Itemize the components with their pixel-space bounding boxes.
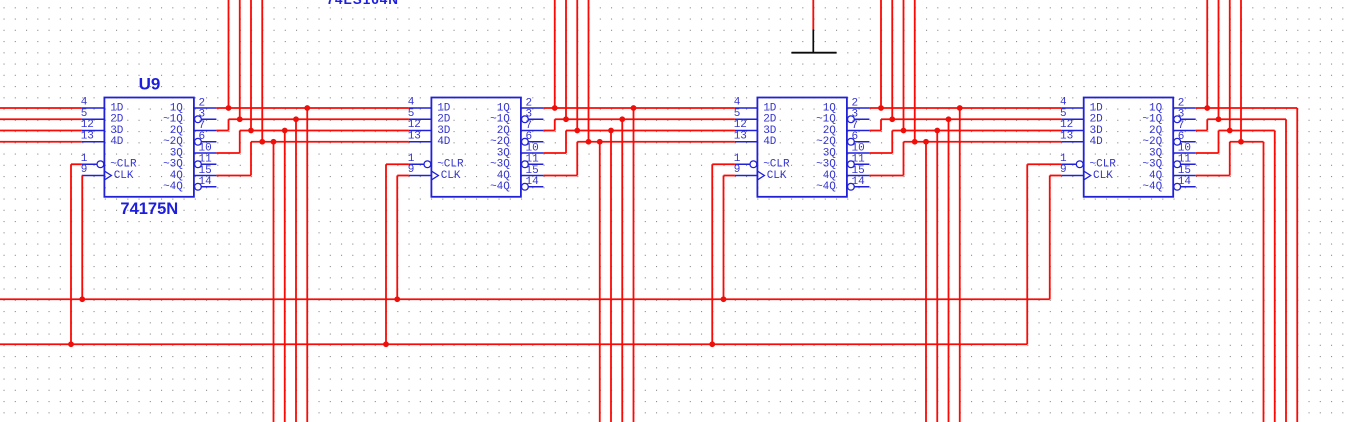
U12 pin 7 (2Q) stub (1173, 130, 1196, 132)
wire net U12 2Q jog up (1206, 119, 1208, 130)
svg-text:1Q: 1Q (823, 102, 837, 114)
U10 pin 10 (3Q) stub (521, 152, 544, 154)
junction U11 CLK on CLK bus (721, 296, 727, 302)
svg-text:15: 15 (1178, 165, 1191, 177)
svg-text:2Q: 2Q (497, 125, 511, 137)
wire net U10 4Q jog up (576, 142, 578, 176)
svg-text:10: 10 (526, 142, 539, 154)
U12 pin 11 (~3Q) stub and bubble (1174, 161, 1181, 168)
junction U10 ~CLR on CLR bus (383, 341, 389, 347)
svg-text:3Q: 3Q (1149, 147, 1163, 159)
U9 pin 12 (3D) stub (82, 130, 105, 132)
U11 pin 6 (~2Q) stub and bubble (848, 138, 855, 145)
wire net U11 4Q vertical to bottom edge (925, 142, 927, 422)
wire net U12 2Q horizontal row 2 (1207, 118, 1286, 120)
wire net U11 3Q vertical to top edge (903, 0, 905, 131)
U10 pin 14 (~4Q) stub and bubble (522, 183, 529, 190)
U11 pin 9 (CLK) stub and clock chevron (735, 175, 758, 177)
svg-text:4: 4 (81, 97, 88, 109)
junction net U9 1Q top tap (226, 105, 232, 111)
wire net U11 4Q horizontal row 4 (904, 141, 1062, 143)
junction net U10 1Q top tap (552, 105, 558, 111)
svg-text:1D: 1D (110, 102, 124, 114)
wire net U9 3Q vertical to bottom edge (284, 131, 286, 422)
svg-text:1Q: 1Q (170, 102, 184, 114)
wire net U9 2Q vertical to top edge (239, 0, 241, 119)
svg-text:74LS164N: 74LS164N (327, 0, 400, 7)
wire U10 CLK horizontal (397, 175, 409, 177)
svg-text:5: 5 (1060, 108, 1067, 120)
svg-text:4D: 4D (1090, 136, 1104, 148)
U9 pin 10 (3Q) stub (194, 152, 217, 154)
wire U11 ~CLR horizontal (712, 163, 735, 165)
svg-text:1D: 1D (437, 102, 451, 114)
U9 pin 13 (4D) stub (82, 141, 105, 143)
wire net U12 1Q horizontal row 1 (1196, 107, 1298, 109)
U10 pin 11 (~3Q) stub and bubble (522, 161, 529, 168)
U10 pin 12 (3D) stub (409, 130, 432, 132)
wire net U11 1Q vertical to top edge (880, 0, 882, 108)
wire net U9 3Q horizontal row 3 (240, 130, 409, 132)
junction net U11 3Q top tap (901, 128, 907, 134)
junction net U11 4Q top tap (912, 139, 918, 145)
junction net U12 1Q top tap (1204, 105, 1210, 111)
wire net U10 3Q from pin 10 (543, 152, 566, 154)
svg-text:~1Q: ~1Q (1142, 114, 1162, 126)
svg-text:U9: U9 (139, 74, 161, 93)
junction net U9 3Q top tap (248, 128, 254, 134)
U12 pin 1 (~CLR) stub and bubble (1061, 163, 1076, 165)
svg-text:3: 3 (852, 109, 859, 121)
wire U12 ~CLR horizontal (1027, 163, 1061, 165)
wire net U10 3Q horizontal row 3 (566, 130, 735, 132)
wire net U9 4Q from pin 15 (216, 175, 251, 177)
U10 pin 13 (4D) stub (409, 141, 432, 143)
junction net U10 1Q bottom tap (631, 105, 637, 111)
op-amp U12 74175N quad D flip-flop (stage 4) (1060, 97, 1196, 197)
wire U9 ~CLR horizontal (71, 163, 82, 165)
svg-text:3: 3 (526, 109, 533, 121)
wire serial input row 2 from left edge to U9 2D (0, 118, 82, 120)
svg-text:~1Q: ~1Q (163, 114, 183, 126)
svg-text:3: 3 (1178, 109, 1185, 121)
U11 pin 4 (1D) stub (735, 107, 758, 109)
svg-text:13: 13 (408, 130, 421, 142)
junction net U10 2Q bottom tap (619, 116, 625, 122)
wire net U9 3Q from pin 10 (216, 152, 239, 154)
wire serial input row 4 from left edge to U9 4D (0, 141, 82, 143)
U11 pin 7 (2Q) stub (847, 130, 870, 132)
U9 pin 9 (CLK) stub and clock chevron (82, 175, 105, 177)
junction net U11 2Q top tap (889, 116, 895, 122)
svg-text:6: 6 (526, 131, 533, 143)
junction net U11 2Q bottom tap (946, 116, 952, 122)
wire net U11 2Q vertical to bottom edge (948, 119, 950, 422)
svg-text:6: 6 (199, 131, 206, 143)
svg-text:7: 7 (1178, 120, 1185, 132)
svg-text:1: 1 (734, 153, 741, 165)
U12 pin 12 (3D) stub (1061, 130, 1084, 132)
wire net U9 1Q vertical to bottom edge (306, 108, 308, 422)
svg-text:7: 7 (852, 120, 859, 132)
wire net U11 1Q vertical to bottom edge (959, 108, 961, 422)
wire net U12 3Q from pin 10 (1196, 152, 1219, 154)
svg-text:3D: 3D (110, 125, 124, 137)
U12 pin 10 (3Q) stub (1173, 152, 1196, 154)
svg-text:9: 9 (1060, 164, 1067, 176)
U9 body box (104, 98, 193, 197)
U11 pin 14 (~4Q) stub and bubble (848, 183, 855, 190)
op-amp U11 74175N quad D flip-flop (stage 3) (734, 97, 870, 197)
U9 pin 3 (~1Q) stub and bubble (195, 116, 202, 123)
wire net U12 4Q vertical to top edge (1240, 0, 1242, 142)
wire net U11 3Q jog up (891, 131, 893, 154)
svg-text:13: 13 (81, 130, 94, 142)
U9 pin 7 (2Q) stub (194, 130, 217, 132)
wire U12 CLK vertical (CLK bus end) (1049, 176, 1051, 300)
junction net U11 3Q bottom tap (934, 128, 940, 134)
svg-text:2Q: 2Q (170, 125, 184, 137)
svg-text:7: 7 (526, 120, 533, 132)
svg-text:12: 12 (408, 119, 421, 131)
wire net U11 2Q jog up (880, 119, 882, 130)
junction net U10 4Q bottom tap (597, 139, 603, 145)
U12 pin 4 (1D) stub (1061, 107, 1084, 109)
junction net U9 4Q top tap (259, 139, 265, 145)
svg-text:~2Q: ~2Q (490, 136, 510, 148)
wire serial input row 3 from left edge to U9 3D (0, 130, 82, 132)
U10 body box (431, 98, 521, 197)
svg-text:~3Q: ~3Q (163, 159, 183, 171)
svg-text:~4Q: ~4Q (163, 181, 183, 193)
wire net U10 1Q vertical to bottom edge (633, 108, 635, 422)
U12 pin 5 (2D) stub (1061, 118, 1084, 120)
svg-text:3D: 3D (1090, 125, 1104, 137)
wire U10 CLK vertical to CLK bus (396, 176, 398, 300)
svg-text:9: 9 (734, 164, 741, 176)
wire net U12 3Q jog up (1218, 131, 1220, 154)
svg-text:~CLR: ~CLR (763, 159, 790, 171)
U11 pin 3 (~1Q) stub and bubble (848, 116, 855, 123)
wire net U10 2Q vertical to top edge (565, 0, 567, 119)
junction net U11 1Q top tap (878, 105, 884, 111)
wire net U12 1Q vertical to bottom edge (1296, 108, 1298, 422)
svg-text:15: 15 (526, 165, 539, 177)
wire net U9 4Q horizontal row 4 (251, 141, 409, 143)
svg-text:7: 7 (199, 120, 206, 132)
U12 pin 15 (4Q) stub (1173, 175, 1196, 177)
wire net U12 2Q from pin 7 (1196, 130, 1208, 132)
svg-text:2: 2 (852, 97, 859, 109)
U10 pin 2 (1Q) stub (521, 107, 544, 109)
svg-text:9: 9 (408, 164, 415, 176)
U11 pin 15 (4Q) stub (847, 175, 870, 177)
U12 pin 14 (~4Q) stub and bubble (1174, 183, 1181, 190)
wire U12 CLK horizontal (1050, 175, 1061, 177)
U11 body box (757, 98, 847, 197)
junction U9 ~CLR on CLR bus (68, 341, 74, 347)
svg-text:4Q: 4Q (170, 170, 184, 182)
wire net U9 2Q vertical to bottom edge (295, 119, 297, 422)
wire net U9 2Q jog up (228, 119, 230, 130)
svg-text:3: 3 (199, 109, 206, 121)
U12 pin 2 (1Q) stub (1173, 107, 1196, 109)
svg-text:12: 12 (81, 119, 94, 131)
svg-text:~4Q: ~4Q (816, 181, 836, 193)
svg-text:11: 11 (852, 154, 866, 166)
wire net U9 2Q horizontal row 2 (229, 118, 409, 120)
svg-text:9: 9 (81, 164, 88, 176)
U9 pin 11 (~3Q) stub and bubble (195, 161, 202, 168)
svg-text:~3Q: ~3Q (816, 159, 836, 171)
wire net U11 4Q from pin 15 (869, 175, 903, 177)
wire serial input row 1 from left edge to U9 1D (0, 107, 82, 109)
U11 pin 2 (1Q) stub (847, 107, 870, 109)
svg-text:4Q: 4Q (1149, 170, 1163, 182)
svg-text:6: 6 (852, 131, 859, 143)
svg-text:2Q: 2Q (1149, 125, 1163, 137)
wire net U11 2Q from pin 7 (869, 130, 881, 132)
wire U9 ~CLR vertical to CLR bus (70, 164, 72, 344)
svg-text:5: 5 (734, 108, 741, 120)
wire net U11 4Q vertical to top edge (914, 0, 916, 142)
wire net U10 2Q from pin 7 (543, 130, 554, 132)
wire net U10 3Q vertical to bottom edge (610, 131, 612, 422)
wire net U12 3Q vertical to top edge (1229, 0, 1231, 131)
U9 pin 4 (1D) stub (82, 107, 105, 109)
U11 pin 10 (3Q) stub (847, 152, 870, 154)
junction net U11 4Q bottom tap (923, 139, 929, 145)
svg-text:2: 2 (199, 97, 206, 109)
svg-text:10: 10 (852, 142, 865, 154)
U11 pin 12 (3D) stub (735, 130, 758, 132)
junction net U9 2Q top tap (237, 116, 243, 122)
ground (792, 30, 837, 53)
U10 pin 5 (2D) stub (409, 118, 432, 120)
wire to ground (812, 0, 814, 30)
svg-text:14: 14 (526, 176, 540, 188)
wire net U12 3Q vertical to bottom edge (1274, 131, 1276, 422)
wire net U12 4Q horizontal row 4 (1230, 141, 1264, 143)
wire net U11 4Q jog up (903, 142, 905, 176)
wire net U11 2Q horizontal row 2 (881, 118, 1061, 120)
op-amp U9 74175N quad D flip-flop (stage 1) (81, 97, 217, 197)
U9 pin 6 (~2Q) stub and bubble (195, 138, 202, 145)
U9 pin 15 (4Q) stub (194, 175, 217, 177)
svg-text:14: 14 (852, 176, 866, 188)
U9 pin 2 (1Q) stub (194, 107, 217, 109)
wire U11 CLK horizontal (724, 175, 735, 177)
svg-text:~1Q: ~1Q (816, 114, 836, 126)
U11 pin 1 (~CLR) stub and bubble (735, 163, 750, 165)
wire net U12 1Q vertical to top edge (1206, 0, 1208, 108)
wire net U10 4Q vertical to bottom edge (599, 142, 601, 422)
svg-text:4: 4 (408, 97, 415, 109)
svg-text:CLK: CLK (441, 170, 461, 182)
wire net U12 4Q vertical to bottom edge (1263, 142, 1265, 422)
svg-text:~CLR: ~CLR (110, 159, 137, 171)
junction net U9 4Q bottom tap (271, 139, 277, 145)
svg-text:11: 11 (526, 154, 540, 166)
wire net U10 2Q horizontal row 2 (555, 118, 735, 120)
svg-text:2D: 2D (763, 114, 777, 126)
wire net U11 3Q from pin 10 (869, 152, 892, 154)
svg-text:12: 12 (734, 119, 747, 131)
U12 pin 3 (~1Q) stub and bubble (1174, 116, 1181, 123)
U10 pin 7 (2Q) stub (521, 130, 544, 132)
svg-text:1D: 1D (763, 102, 777, 114)
svg-text:~2Q: ~2Q (163, 136, 183, 148)
wire net U11 3Q vertical to bottom edge (936, 131, 938, 422)
U11 pin 11 (~3Q) stub and bubble (848, 161, 855, 168)
wire net U10 3Q jog up (565, 131, 567, 154)
svg-text:15: 15 (852, 165, 865, 177)
wire CLR bus horizontal (0, 343, 1027, 345)
svg-text:13: 13 (1060, 130, 1073, 142)
U9 pin 1 (~CLR) stub and bubble (82, 163, 97, 165)
wire U9 CLK vertical to CLK bus (81, 176, 83, 300)
svg-text:1: 1 (408, 153, 415, 165)
wire net U10 4Q from pin 15 (543, 175, 577, 177)
junction U10 CLK on CLK bus (394, 296, 400, 302)
svg-text:2D: 2D (110, 114, 124, 126)
svg-text:~3Q: ~3Q (1142, 159, 1162, 171)
svg-text:4Q: 4Q (823, 170, 837, 182)
svg-text:2D: 2D (437, 114, 451, 126)
svg-text:14: 14 (1178, 176, 1192, 188)
svg-text:4: 4 (734, 97, 741, 109)
wire U12 ~CLR vertical (CLR bus end) (1026, 164, 1028, 344)
wire net U9 4Q vertical to top edge (261, 0, 263, 142)
junction net U10 4Q top tap (586, 139, 592, 145)
junction net U10 3Q top tap (574, 128, 580, 134)
svg-text:2D: 2D (1090, 114, 1104, 126)
wire net U10 1Q vertical to top edge (554, 0, 556, 108)
wire net U9 1Q vertical to top edge (228, 0, 230, 108)
U10 pin 15 (4Q) stub (521, 175, 544, 177)
wire U10 ~CLR vertical to CLR bus (385, 164, 387, 344)
svg-text:2: 2 (1178, 97, 1185, 109)
junction U9 CLK on CLK bus (79, 296, 85, 302)
svg-text:~CLR: ~CLR (437, 159, 464, 171)
svg-text:1D: 1D (1090, 102, 1104, 114)
op-amp U10 74175N quad D flip-flop (stage 2) (408, 97, 544, 197)
wire U11 ~CLR vertical to CLR bus (711, 164, 713, 344)
svg-text:CLK: CLK (767, 170, 787, 182)
U10 pin 6 (~2Q) stub and bubble (522, 138, 529, 145)
svg-text:2: 2 (526, 97, 533, 109)
U10 pin 3 (~1Q) stub and bubble (522, 116, 529, 123)
wire net U9 4Q vertical to bottom edge (273, 142, 275, 422)
wire U10 ~CLR horizontal (386, 163, 409, 165)
svg-text:3Q: 3Q (170, 147, 184, 159)
svg-text:6: 6 (1178, 131, 1185, 143)
svg-text:~4Q: ~4Q (1142, 181, 1162, 193)
wire net U11 3Q horizontal row 3 (892, 130, 1061, 132)
svg-text:74175N: 74175N (120, 200, 178, 218)
wire net U11 1Q horizontal row 1 (869, 107, 1061, 109)
U10 pin 1 (~CLR) stub and bubble (409, 163, 424, 165)
svg-text:14: 14 (199, 176, 213, 188)
svg-text:10: 10 (1178, 142, 1191, 154)
wire net U10 3Q vertical to top edge (576, 0, 578, 131)
wire U9 CLK horizontal (81, 175, 83, 177)
junction net U9 3Q bottom tap (282, 128, 288, 134)
wire net U9 1Q horizontal row 1 (216, 107, 409, 109)
wire net U9 3Q vertical to top edge (250, 0, 252, 131)
svg-text:11: 11 (1178, 154, 1192, 166)
U9 pin 5 (2D) stub (82, 118, 105, 120)
U10 pin 9 (CLK) stub and clock chevron (409, 175, 432, 177)
junction net U9 1Q bottom tap (304, 105, 310, 111)
svg-text:4: 4 (1060, 97, 1067, 109)
U12 pin 13 (4D) stub (1061, 141, 1084, 143)
wire net U9 3Q jog up (239, 131, 241, 154)
wire net U12 4Q jog up (1229, 142, 1231, 176)
svg-text:~1Q: ~1Q (490, 114, 510, 126)
svg-text:5: 5 (408, 108, 415, 120)
svg-text:2Q: 2Q (823, 125, 837, 137)
wire net U12 2Q vertical to top edge (1218, 0, 1220, 119)
U11 pin 5 (2D) stub (735, 118, 758, 120)
svg-text:3D: 3D (437, 125, 451, 137)
U11 pin 13 (4D) stub (735, 141, 758, 143)
wire net U10 1Q horizontal row 1 (543, 107, 735, 109)
svg-text:1: 1 (1060, 153, 1067, 165)
svg-text:4D: 4D (110, 136, 124, 148)
svg-text:CLK: CLK (114, 170, 134, 182)
svg-text:3Q: 3Q (823, 147, 837, 159)
wire net U9 2Q from pin 7 (216, 130, 228, 132)
wire net U10 2Q jog up (554, 119, 556, 130)
wire net U10 2Q vertical to bottom edge (621, 119, 623, 422)
wire net U11 2Q vertical to top edge (891, 0, 893, 119)
svg-text:13: 13 (734, 130, 747, 142)
svg-text:CLK: CLK (1093, 170, 1113, 182)
wire U11 CLK vertical to CLK bus (723, 176, 725, 300)
svg-text:1Q: 1Q (1149, 102, 1163, 114)
svg-text:5: 5 (81, 108, 88, 120)
U12 pin 9 (CLK) stub and clock chevron (1061, 175, 1084, 177)
junction net U9 2Q bottom tap (293, 116, 299, 122)
wire net U10 4Q vertical to top edge (588, 0, 590, 142)
junction net U11 1Q bottom tap (957, 105, 963, 111)
svg-text:4D: 4D (437, 136, 451, 148)
wire net U12 4Q from pin 15 (1196, 175, 1230, 177)
svg-text:~3Q: ~3Q (490, 159, 510, 171)
svg-text:1: 1 (81, 153, 88, 165)
junction net U12 4Q top tap (1238, 139, 1244, 145)
svg-text:~CLR: ~CLR (1090, 159, 1117, 171)
U12 pin 6 (~2Q) stub and bubble (1174, 138, 1181, 145)
U12 body box (1084, 98, 1174, 197)
U10 pin 4 (1D) stub (409, 107, 432, 109)
svg-text:11: 11 (199, 154, 213, 166)
svg-text:3Q: 3Q (497, 147, 511, 159)
junction net U10 2Q top tap (563, 116, 569, 122)
svg-text:~4Q: ~4Q (490, 181, 510, 193)
svg-text:10: 10 (199, 142, 212, 154)
wire CLK bus horizontal (0, 298, 1050, 300)
svg-text:~2Q: ~2Q (816, 136, 836, 148)
svg-text:1Q: 1Q (497, 102, 511, 114)
wire net U12 2Q vertical to bottom edge (1285, 119, 1287, 422)
svg-text:15: 15 (199, 165, 212, 177)
junction U11 ~CLR on CLR bus (709, 341, 715, 347)
junction net U10 3Q bottom tap (608, 128, 614, 134)
svg-text:~2Q: ~2Q (1142, 136, 1162, 148)
U9 pin 14 (~4Q) stub and bubble (195, 183, 202, 190)
